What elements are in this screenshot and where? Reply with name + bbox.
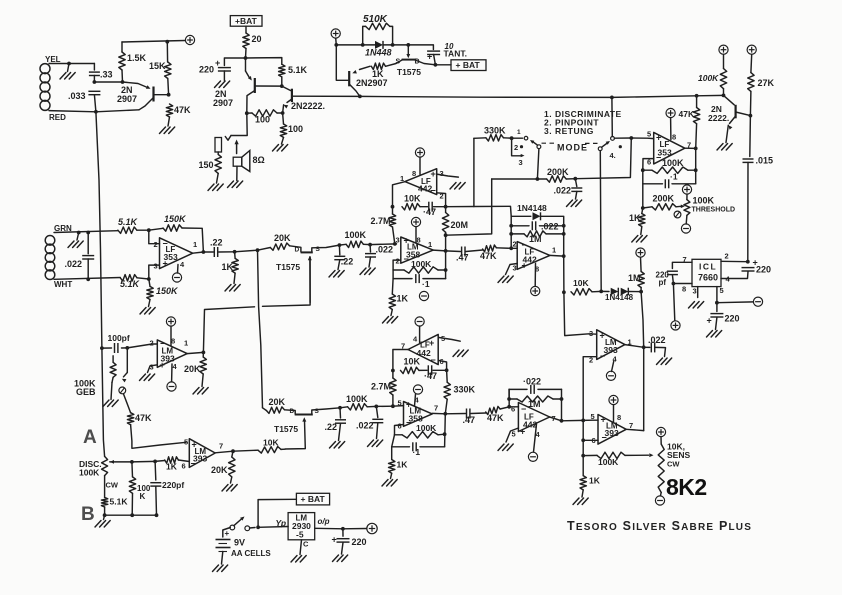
label .022 fb: [541, 222, 559, 232]
node Q1 base divider: [167, 93, 171, 97]
op-amp U2C LF442 label LF: [420, 341, 430, 350]
resistor 1K thr: [639, 214, 645, 227]
resistor 100K lower: [348, 404, 368, 410]
op-amp U2A LF442 label 442: [418, 184, 432, 194]
svg-text:100K: 100K: [693, 196, 715, 206]
svg-text:2907: 2907: [117, 94, 137, 104]
wire: [643, 169, 652, 171]
label GEB: [76, 387, 96, 397]
label 2N2907 q4: [356, 78, 388, 88]
svg-text:8: 8: [682, 285, 686, 294]
pot DISC wiper arrow: [110, 460, 114, 464]
junction: [155, 513, 159, 517]
svg-text:220: 220: [199, 65, 214, 75]
wire: [232, 451, 233, 457]
svg-text:−: −: [404, 254, 409, 264]
svg-text:47K: 47K: [480, 251, 497, 261]
label 15K: [149, 61, 166, 71]
pot GEB wiper slash: [120, 388, 124, 393]
wire pin3: [148, 365, 158, 373]
node U2D out: [560, 419, 564, 423]
op-amp U5A LM393 label 1: [628, 338, 632, 347]
wire: [376, 405, 393, 407]
svg-text:·022: ·022: [523, 377, 541, 387]
pot 100K GEB: [110, 362, 116, 377]
resistor 100K u3b: [402, 432, 438, 438]
wire: [87, 259, 89, 279]
wire: [247, 112, 252, 114]
label -5: [296, 530, 304, 540]
node 200K thr: [641, 206, 645, 210]
wire pin8: [613, 405, 615, 422]
wire: [582, 456, 584, 476]
wire pin5: [716, 287, 718, 303]
ground 220 5v: [333, 555, 348, 562]
resistor 100K b: [129, 477, 135, 493]
resistor 1K tis: [371, 63, 385, 69]
op-amp U1A LF353 label LF: [166, 245, 176, 254]
label .022 upper: [376, 245, 394, 255]
ground RX coil: [68, 241, 83, 248]
svg-text:10K: 10K: [404, 357, 421, 367]
capacitor .1 u4b: [665, 179, 668, 188]
wire: [445, 399, 447, 414]
ground .022 out: [657, 358, 672, 365]
label CW sens: [667, 460, 680, 469]
wire Q1 base: [154, 94, 169, 96]
wire: [500, 407, 509, 409]
label S q8: [315, 408, 320, 415]
label ICL: [699, 262, 717, 272]
wire: [575, 179, 577, 187]
power + U2B: [531, 286, 540, 295]
label 27K: [758, 78, 775, 88]
capacitor .015: [743, 159, 754, 162]
wire rail to switch2: [611, 97, 613, 136]
svg-text:A: A: [83, 427, 97, 448]
wire Q1 collector: [139, 98, 154, 110]
resistor 20M: [442, 213, 448, 233]
label Yp: [276, 518, 287, 528]
op-amp U2B LF442 label 1: [552, 246, 556, 255]
op-amp U6A LM393 label &#8722;: [160, 339, 165, 349]
wire: [656, 347, 666, 356]
svg-text:6: 6: [511, 405, 515, 414]
op-amp U6B LM393 label 393: [193, 454, 207, 464]
resistor 47K: [166, 104, 172, 117]
wire: [546, 233, 564, 235]
power + thr: [682, 185, 691, 194]
wire: [446, 250, 461, 253]
label CW disc: [106, 481, 119, 490]
wire pin2: [149, 230, 160, 244]
svg-text:1M: 1M: [528, 399, 541, 409]
op-amp U3B LM358 label 7: [434, 404, 438, 413]
transistor Q6 emitter arrow: [728, 125, 732, 129]
svg-text:8: 8: [672, 133, 676, 142]
op-amp U2D LF442 label 5: [512, 430, 516, 439]
node -V: [715, 301, 719, 305]
svg-text:47K: 47K: [174, 105, 191, 115]
svg-text:8: 8: [412, 169, 416, 178]
op-amp U4B LF353: [654, 132, 685, 164]
label + cap220: [215, 58, 220, 68]
svg-text:·1: ·1: [670, 172, 678, 182]
wire U4B out: [685, 147, 696, 149]
op-amp U4B LF353 label &#8722;: [656, 153, 661, 163]
ground pin3: [689, 302, 704, 309]
wire: [222, 552, 223, 565]
label 330K b: [454, 385, 476, 395]
wire loop left: [510, 216, 512, 248]
svg-text:.47: .47: [456, 253, 469, 263]
resistor 2.7M lower: [390, 378, 396, 395]
label sw1 1: [517, 129, 521, 136]
svg-text:150K: 150K: [156, 286, 179, 296]
wire: [338, 260, 340, 270]
svg-text:AA CELLS: AA CELLS: [231, 549, 271, 558]
op-amp U5B LM393 label 393: [605, 428, 619, 438]
svg-text:1N4148: 1N4148: [605, 293, 634, 302]
ground U2C pin5: [453, 350, 468, 357]
wire pin4: [177, 265, 180, 274]
label WHT: [54, 280, 72, 289]
fet Q7 TIS75 bar: [301, 251, 313, 253]
wire: [343, 528, 367, 530]
label 47K u4b: [679, 109, 695, 119]
junction coil-top ground: [67, 62, 71, 66]
wire Q2 emitter: [246, 71, 250, 77]
node .22 lower: [338, 406, 342, 410]
svg-text:3: 3: [519, 158, 523, 167]
op-amp U5B LM393 label 5: [591, 412, 595, 421]
wire RX top: [54, 231, 118, 233]
label 1.5K: [127, 53, 147, 63]
junction .022 bottom: [86, 277, 90, 281]
wire U3B out: [432, 412, 445, 414]
ground 1K thr: [632, 236, 647, 243]
wire: [512, 137, 523, 139]
ground .022 mode: [567, 200, 582, 207]
wire U2B out: [550, 254, 564, 257]
resistor 330K: [486, 135, 504, 141]
wire output: [193, 252, 204, 253]
transistor Q3 2N2222 bar: [291, 89, 293, 102]
svg-text:200K: 200K: [547, 167, 569, 177]
label 200K thr: [653, 194, 675, 204]
label 20M: [451, 220, 469, 230]
wire: [94, 95, 96, 112]
svg-text:20: 20: [252, 34, 262, 44]
svg-text:.33: .33: [100, 70, 113, 80]
wire: [628, 291, 641, 293]
label LM: [296, 514, 308, 523]
label .022 mode: [554, 186, 572, 196]
pot SENS wiper arrow: [649, 453, 653, 457]
power - U5A: [606, 371, 615, 380]
wire pin3: [506, 264, 518, 275]
svg-text:4: 4: [173, 362, 178, 371]
resistor 1K sens: [580, 476, 586, 490]
label 100 h: [255, 115, 270, 125]
op-amp U4B LF353 label 6: [647, 158, 651, 167]
label 10K detect: [573, 278, 589, 288]
svg-text:150K: 150K: [164, 214, 187, 224]
wire pin8: [534, 264, 536, 287]
svg-text:K: K: [140, 492, 146, 501]
svg-text:330K: 330K: [454, 385, 476, 395]
svg-text:.22: .22: [325, 422, 338, 432]
label T1575 lower: [274, 424, 298, 434]
op-amp U5B LM393 label LM: [606, 422, 618, 431]
label 2.7M upper: [371, 216, 391, 226]
node .022 200K: [573, 177, 577, 181]
op-amp U2B LF442 label &#8722;: [522, 240, 527, 250]
wire Q1 emitter lead: [123, 82, 148, 88]
node base drive: [121, 80, 125, 84]
battery 9V: [216, 540, 231, 552]
label YEL: [45, 55, 61, 64]
label 100K u3b: [416, 423, 437, 433]
label DISC.: [79, 459, 102, 469]
wire pin6: [643, 159, 654, 171]
wire Q6 collector lead: [736, 112, 751, 116]
node rail Q4: [358, 95, 362, 99]
op-amp U5A LM393 label 393: [604, 345, 618, 355]
wire: [408, 45, 433, 50]
op-amp U2D LF442 label +: [520, 427, 525, 437]
junction rail to mode switch: [610, 96, 614, 100]
resistor 10K u2c: [401, 367, 420, 373]
wire: [509, 398, 517, 400]
wire: [281, 448, 285, 450]
wire: [342, 543, 344, 555]
junction: [581, 438, 585, 442]
node 510K row left: [334, 43, 338, 47]
wire: [167, 79, 170, 95]
wire: [149, 300, 151, 307]
wire vreg out: [315, 527, 343, 530]
svg-text:.022: .022: [541, 222, 559, 232]
op-amp U6A LM393 label LM: [162, 347, 174, 356]
wire: [660, 437, 662, 445]
node 100K sens: [581, 454, 585, 458]
svg-text:220: 220: [725, 314, 740, 324]
op-amp U1A LF353 label 1: [193, 240, 197, 249]
power - U2D: [528, 452, 537, 461]
op-amp U3A LM358 label 1: [428, 240, 432, 249]
label pin3: [693, 287, 697, 296]
label K b: [140, 492, 146, 501]
wire: [434, 55, 436, 65]
node B: [103, 513, 107, 517]
switch2 contact top: [611, 137, 615, 141]
svg-text:−: −: [600, 351, 605, 361]
wire pin4: [415, 394, 416, 406]
resistor 20: [243, 33, 249, 49]
svg-text:3: 3: [440, 169, 444, 178]
jack tip spring: [225, 136, 231, 141]
op-amp U2B LF442 label LF: [525, 248, 535, 257]
svg-text:+: +: [431, 169, 436, 179]
junction: [562, 232, 566, 236]
svg-text:5: 5: [591, 412, 595, 421]
label 100K u4b: [662, 158, 684, 168]
op-amp U5A LM393 label LM: [605, 338, 617, 347]
diode 1N4148 a: [611, 288, 619, 296]
ground 1K u3a: [383, 317, 398, 324]
svg-text:220: 220: [756, 265, 771, 275]
op-amp U2C LF442 label 6: [440, 357, 444, 366]
wire Q4 collector: [349, 84, 360, 96]
label 220 5v: [352, 537, 367, 547]
power + 100K: [719, 45, 728, 54]
wire: [124, 373, 128, 377]
svg-text:1K: 1K: [222, 262, 234, 272]
speaker cone: [242, 151, 250, 172]
capacitor 220uF supply: [218, 68, 231, 71]
wire: [236, 166, 238, 180]
wire: [121, 42, 123, 52]
svg-text:1K: 1K: [589, 476, 601, 486]
svg-text:T1575: T1575: [274, 424, 298, 434]
op-amp U3B LM358 label 358: [409, 414, 423, 424]
label 5.1K rx bot: [120, 279, 141, 289]
wire pin2 column: [583, 357, 597, 421]
wire: [641, 227, 642, 235]
svg-text:220: 220: [352, 537, 367, 547]
wire signal vertical: [258, 250, 263, 408]
svg-text:·47: ·47: [423, 207, 436, 217]
node detect out: [642, 345, 646, 349]
capacitor .1 u3b: [413, 442, 416, 451]
junction 10K row: [562, 290, 566, 294]
op-amp U5B LM393 label +: [601, 415, 606, 425]
svg-text:100K: 100K: [662, 158, 684, 168]
label D q7: [295, 247, 300, 254]
wire vreg gnd: [300, 540, 302, 555]
junction: [443, 432, 447, 436]
wire: [392, 371, 394, 379]
svg-text:ICL: ICL: [699, 262, 717, 272]
label 1N4148 pair: [605, 293, 634, 302]
wire Q7 source: [312, 245, 340, 252]
wire: [723, 89, 725, 96]
wire mode line long vertical: [599, 151, 602, 292]
svg-text:3: 3: [589, 329, 593, 338]
diode 1N4148 fb: [533, 212, 541, 220]
ground U6A pin3: [140, 374, 155, 381]
wire: [217, 173, 219, 183]
wire: [538, 388, 562, 390]
op-amp U2C LF442 label 442: [417, 348, 431, 358]
capacitor .022 mode: [571, 188, 582, 191]
wire: [420, 446, 445, 448]
wire pin5: [506, 428, 518, 442]
ground 150K: [140, 308, 155, 315]
label 20K u6a: [184, 364, 201, 374]
svg-text:5: 5: [398, 399, 402, 408]
svg-text:.022: .022: [65, 259, 83, 269]
wire to U3A pin3: [370, 243, 396, 246]
wire to U6B pin5: [131, 425, 186, 449]
label 1K u6b: [166, 462, 178, 472]
op-amp U1A LF353 label &#8722;: [163, 239, 168, 249]
wire: [245, 58, 247, 71]
wire out column: [695, 148, 697, 183]
wire to U5 out node: [641, 292, 644, 348]
wire: [471, 412, 486, 415]
label + batt: [225, 529, 230, 538]
label .015: [756, 156, 774, 166]
junction pin8: [672, 282, 676, 286]
resistor 100K u4b: [652, 167, 688, 173]
wire loop left b: [508, 389, 510, 406]
pot wiper slash: [676, 212, 680, 217]
svg-text:6: 6: [182, 462, 186, 471]
svg-text:5: 5: [720, 286, 724, 295]
wire: [245, 49, 248, 59]
wire to U5B pin5: [583, 419, 598, 421]
op-amp U1A LF353 label +: [163, 259, 168, 269]
wire pin8: [415, 227, 417, 243]
resistor 47K out: [483, 245, 497, 252]
label 100K pullup: [698, 73, 719, 83]
wire: [749, 91, 752, 115]
node U3A out: [444, 249, 448, 253]
power + U4B: [666, 108, 675, 117]
label 150K gnd: [156, 286, 179, 296]
wire: [435, 64, 451, 66]
svg-text:100pf: 100pf: [108, 333, 130, 343]
svg-text:1: 1: [184, 339, 188, 348]
fet Q5 TIS75 bar: [402, 59, 415, 61]
capacitor .022 out: [651, 342, 654, 352]
wire: [124, 394, 131, 413]
transistor Q1 emitter arrow: [146, 85, 151, 89]
op-amp U4B LF353 label LF: [660, 140, 670, 149]
wire U6B out: [215, 451, 233, 453]
label .1 u4b: [670, 172, 678, 182]
wire: [137, 278, 149, 279]
label .022 u2d: [523, 377, 541, 387]
node pin5 row: [629, 136, 633, 140]
svg-text:3: 3: [154, 262, 158, 271]
svg-text:2: 2: [150, 339, 154, 348]
wire: [509, 406, 518, 408]
wire: [233, 450, 258, 451]
label 10K u2a: [404, 194, 421, 204]
capacitor 220 5V: [337, 539, 350, 542]
op-amp U3B LM358 label LM: [410, 407, 422, 416]
svg-text:100K: 100K: [345, 230, 367, 240]
svg-text:5.1K: 5.1K: [288, 65, 308, 75]
wire: [155, 487, 158, 516]
svg-text:20K: 20K: [211, 465, 228, 475]
resistor 20K upper: [270, 243, 289, 250]
op-amp U3A LM358 label 3: [396, 236, 400, 245]
wire: [466, 250, 483, 252]
label 2.7M lower: [371, 382, 391, 392]
junction TIS75 gate: [406, 43, 410, 47]
resistor 5.1K rx top: [118, 227, 137, 233]
svg-text:100K: 100K: [79, 468, 100, 478]
label + 220r: [753, 258, 758, 268]
op-amp U2A LF442 label 2: [440, 192, 444, 201]
power + 5V: [367, 523, 377, 533]
label 330K: [484, 126, 506, 136]
label .022 lower: [356, 421, 374, 431]
